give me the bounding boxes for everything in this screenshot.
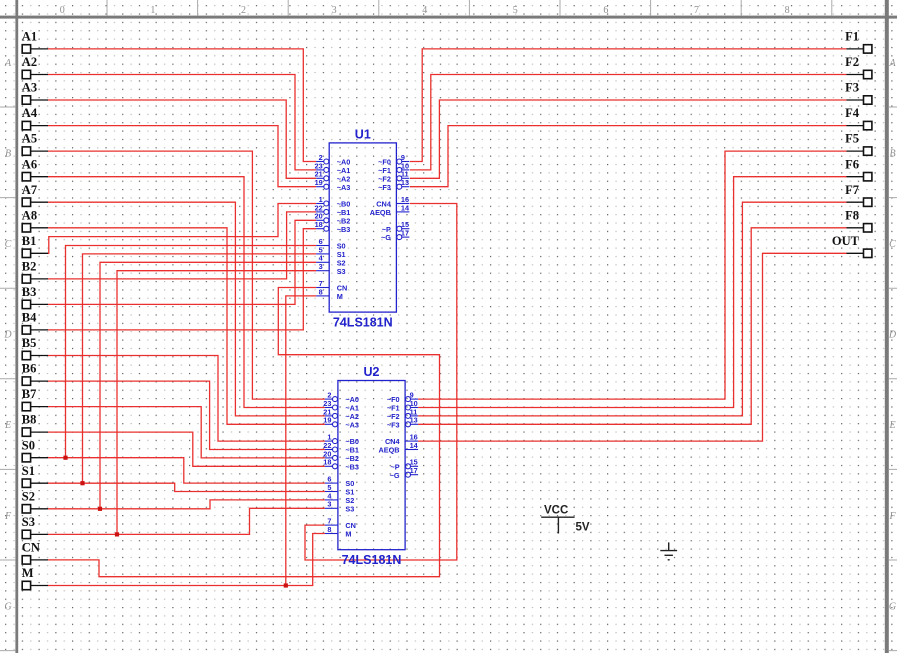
wire S3 net branch to U1 pin3: [48, 271, 317, 535]
input port B8: [22, 413, 48, 437]
svg-text:3: 3: [332, 5, 337, 16]
input port A5: [22, 132, 48, 156]
chip U2 pin 3 (S3) left: [325, 507, 338, 509]
svg-text:F8: F8: [845, 208, 859, 222]
svg-text:3: 3: [327, 500, 331, 509]
wire A8 net: port A8 to U2 pin19: [48, 228, 325, 424]
chip U2 pin 7 (CN) left: [325, 524, 338, 526]
svg-text:S2: S2: [22, 489, 35, 503]
svg-text:AEQB: AEQB: [379, 446, 400, 455]
chip U1 pin 10 (F1) right: [397, 167, 410, 172]
wire B3 net: port B3 to U1 pin20: [48, 220, 317, 304]
input port A6: [22, 157, 48, 181]
output port F2: [845, 55, 872, 79]
chip U1 pin 19 (A3) left: [316, 184, 329, 189]
svg-text:~B3: ~B3: [345, 462, 359, 471]
svg-text:D: D: [888, 330, 897, 341]
svg-text:8: 8: [319, 287, 323, 296]
svg-text:B2: B2: [22, 260, 37, 274]
svg-text:F4: F4: [845, 106, 860, 120]
chip U1 pin 5 (S1) left: [316, 253, 329, 255]
chip U1 pin 22 (B1) left: [316, 209, 329, 214]
svg-text:14: 14: [401, 203, 410, 212]
wire F8 net: U2 pin13 to port F8: [418, 228, 846, 424]
svg-text:S3: S3: [337, 267, 346, 276]
wire B7 net: port B7 to U2 pin20: [48, 407, 325, 458]
chip U1 pin 6 (S0) left: [316, 245, 329, 247]
svg-text:G: G: [889, 601, 896, 612]
svg-text:D: D: [3, 330, 12, 341]
svg-text:A8: A8: [22, 208, 37, 222]
chip U1 pin 20 (B2) left: [316, 218, 329, 223]
svg-text:U2: U2: [364, 365, 380, 379]
wire F6 net: U2 pin10 to port F6: [418, 177, 846, 408]
junction on S2 net: [98, 507, 102, 511]
svg-text:17: 17: [410, 466, 418, 475]
wire S2 net branch to U1 pin4: [48, 262, 317, 509]
wire B6 net: port B6 to U2 pin22: [48, 381, 325, 449]
svg-text:~A3: ~A3: [345, 420, 359, 429]
op-amp substitute: ALU chip U1 74LS181N body: [329, 143, 396, 312]
wire OUT net: U2 pin16 CN4 to port OUT: [418, 253, 846, 441]
svg-text:13: 13: [401, 178, 409, 187]
svg-text:F2: F2: [845, 55, 859, 69]
input port M: [22, 566, 48, 590]
chip U2 pin 23 (A1) left: [325, 405, 338, 410]
wire A3 net: port A3 to U1 pin21: [48, 100, 317, 178]
output port F4: [845, 106, 872, 130]
input port B2: [22, 260, 48, 284]
wire S0 net branch to U1 pin6: [48, 246, 317, 458]
wire B5 net: port B5 to U2 pin1: [48, 356, 325, 442]
svg-text:B6: B6: [22, 362, 37, 376]
svg-text:B: B: [5, 148, 11, 159]
chip U2 pin 6 (S0) left: [325, 482, 338, 484]
wire B1 net: port B1 to U1 pin1: [48, 204, 317, 254]
svg-text:B4: B4: [22, 311, 37, 325]
svg-text:A4: A4: [22, 106, 38, 120]
wire F5 net: U2 pin9 to port F5: [418, 151, 846, 399]
svg-text:F3: F3: [845, 81, 859, 95]
input port S0: [22, 438, 48, 462]
input port A3: [22, 81, 48, 105]
wire A4 net: port A4 to U1 pin19: [48, 126, 317, 187]
ground: [660, 542, 677, 559]
svg-text:B5: B5: [22, 336, 37, 350]
wire B8 net: port B8 to U2 pin18: [48, 432, 325, 466]
svg-text:~F3: ~F3: [387, 420, 400, 429]
wire F3 net: U1 pin11 to port F3: [410, 100, 847, 178]
chip U2 pin 19 (A3) left: [325, 422, 338, 427]
svg-text:A6: A6: [22, 157, 37, 171]
wire CN net: port CN to U1 pin7: [48, 288, 440, 577]
chip U1 pin 14 (AEQB) right: [396, 211, 409, 213]
wire S3 net branch to U2 pin3: [117, 508, 325, 534]
wire F1 net: U1 pin9 to port F1: [410, 49, 847, 162]
svg-text:A: A: [4, 58, 12, 69]
svg-text:0: 0: [60, 5, 65, 16]
wire A2 net: port A2 to U1 pin23: [48, 75, 317, 170]
input port A4: [22, 106, 48, 130]
svg-text:E: E: [4, 420, 11, 431]
svg-text:~F3: ~F3: [378, 183, 391, 192]
svg-text:F: F: [888, 511, 896, 522]
chip U1 pin 7 (CN) left: [316, 287, 329, 289]
svg-text:5V: 5V: [576, 522, 590, 534]
junction on S3 net: [115, 532, 119, 536]
input port B4: [22, 311, 48, 335]
svg-text:A: A: [888, 58, 896, 69]
output port F6: [845, 157, 872, 181]
chip U1 pin 18 (B3) left: [316, 226, 329, 231]
svg-text:B3: B3: [22, 285, 37, 299]
chip U1 pin 9 (F0) right: [397, 159, 410, 164]
svg-text:14: 14: [410, 441, 419, 450]
chip U1 pin 13 (F3) right: [397, 184, 410, 189]
chip U2 pin 20 (B2) left: [325, 455, 338, 460]
svg-text:S1: S1: [22, 464, 35, 478]
output port OUT: [832, 234, 872, 258]
chip U1 pin 23 (A1) left: [316, 167, 329, 172]
junction on S1 net: [80, 481, 84, 485]
chip U1 pin 15 (P) right: [397, 226, 410, 231]
chip U2 pin 13 (F3) right: [406, 422, 419, 427]
chip U2 pin 16 (CN4) right: [405, 440, 418, 442]
chip U2 pin 8 (M) left: [325, 533, 338, 535]
input port B5: [22, 336, 48, 360]
ruler column numbers: [60, 5, 790, 16]
svg-text:G: G: [4, 601, 11, 612]
chip U1 pin 4 (S2) left: [316, 261, 329, 263]
svg-text:19: 19: [315, 178, 323, 187]
svg-text:S3: S3: [22, 515, 35, 529]
wire A1 net: port A1 to U1 pin2: [48, 49, 317, 162]
ruler border top line: [0, 16, 897, 19]
svg-text:B: B: [889, 148, 895, 159]
wire F7 net: U2 pin11 to port F7: [418, 202, 846, 416]
svg-text:6: 6: [603, 5, 608, 16]
svg-text:A2: A2: [22, 55, 37, 69]
svg-text:VCC: VCC: [544, 505, 568, 517]
ruler row letters left: [3, 58, 12, 613]
wire M net branch to U2 pin8: [286, 534, 325, 586]
chip U2 pin 1 (B0) left: [325, 439, 338, 444]
input port S2: [22, 489, 48, 513]
chip U1 pin 16 (CN4) right: [396, 203, 409, 205]
input port S1: [22, 464, 48, 488]
wire S0 net branch to U2 pin6: [66, 458, 325, 483]
svg-text:A3: A3: [22, 81, 37, 95]
chip U2 pin 14 (AEQB) right: [405, 449, 418, 451]
svg-text:4: 4: [422, 5, 427, 16]
svg-text:B7: B7: [22, 387, 37, 401]
chip U2 pin 5 (S1) left: [325, 491, 338, 493]
chip U1 pin 21 (A2) left: [316, 176, 329, 181]
svg-text:3: 3: [319, 262, 323, 271]
chip U2 pin 15 (P) right: [406, 464, 419, 469]
svg-text:8: 8: [785, 5, 790, 16]
svg-text:7: 7: [694, 5, 699, 16]
svg-text:S0: S0: [22, 438, 35, 452]
svg-text:8: 8: [327, 525, 331, 534]
svg-text:B1: B1: [22, 234, 37, 248]
wire A5 net: port A5 to U2 pin2: [48, 151, 325, 399]
input port A8: [22, 208, 48, 232]
wire B4 net: port B4 to U1 pin18: [48, 229, 317, 330]
input port B3: [22, 285, 48, 309]
svg-text:F6: F6: [845, 157, 859, 171]
power supply VCC 5V: [541, 517, 574, 533]
chip U2 pin 11 (F2) right: [406, 413, 419, 418]
input port B6: [22, 362, 48, 386]
input port A2: [22, 55, 48, 79]
svg-text:M: M: [22, 566, 34, 580]
junction on M net: [284, 583, 288, 587]
svg-text:F1: F1: [845, 30, 859, 44]
svg-text:5: 5: [513, 5, 518, 16]
svg-text:M: M: [337, 292, 343, 301]
svg-text:C: C: [5, 239, 12, 250]
svg-text:13: 13: [410, 416, 418, 425]
chip U2 pin 21 (A2) left: [325, 413, 338, 418]
wire S1 net branch to U1 pin5: [48, 254, 317, 483]
wire S2 net branch to U2 pin4: [100, 500, 325, 509]
chip U2 pin 10 (F1) right: [406, 405, 419, 410]
output port F7: [845, 183, 872, 207]
svg-text:AEQB: AEQB: [370, 208, 391, 217]
svg-text:B8: B8: [22, 413, 37, 427]
input port S3: [22, 515, 48, 539]
svg-text:74LS181N: 74LS181N: [333, 316, 393, 330]
input port A1: [22, 30, 48, 54]
svg-text:A5: A5: [22, 132, 37, 146]
svg-text:OUT: OUT: [832, 234, 860, 248]
ruler border left line: [15, 0, 18, 653]
svg-text:U1: U1: [355, 127, 371, 141]
op-amp substitute: ALU chip U2 74LS181N body: [338, 381, 405, 550]
svg-text:F: F: [4, 511, 12, 522]
svg-text:M: M: [345, 530, 351, 539]
svg-text:18: 18: [323, 458, 331, 467]
junction on S0 net: [63, 456, 67, 460]
chip U2 pin 18 (B3) left: [325, 464, 338, 469]
wire A7 net: port A7 to U2 pin21: [48, 202, 325, 416]
svg-text:~G: ~G: [381, 233, 391, 242]
input port A7: [22, 183, 48, 207]
chip U1 pin 3 (S3) left: [316, 270, 329, 272]
output port F3: [845, 81, 872, 105]
svg-text:~B3: ~B3: [337, 225, 351, 234]
svg-text:2: 2: [241, 5, 246, 16]
output port F8: [845, 208, 872, 232]
ruler row letters right: [888, 58, 897, 613]
wire S1 net branch to U2 pin5: [83, 483, 325, 491]
svg-text:~G: ~G: [390, 471, 400, 480]
svg-text:CN: CN: [22, 541, 40, 555]
wire F4 net: U1 pin13 to port F4: [410, 126, 847, 187]
wire A6 net: port A6 to U2 pin23: [48, 177, 325, 408]
svg-text:17: 17: [401, 229, 409, 238]
svg-text:19: 19: [323, 416, 331, 425]
svg-text:A1: A1: [22, 30, 37, 44]
wire carry net: U1 pin16 CN4 to U2 pin7 CN: [305, 204, 457, 561]
svg-text:18: 18: [315, 220, 323, 229]
chip U2 pin 22 (B1) left: [325, 447, 338, 452]
svg-text:~A3: ~A3: [337, 183, 351, 192]
svg-text:E: E: [888, 420, 895, 431]
chip U1 pin 2 (A0) left: [316, 159, 329, 164]
chip U1 pin 11 (F2) right: [397, 176, 410, 181]
svg-text:C: C: [889, 239, 896, 250]
svg-text:S3: S3: [345, 504, 354, 513]
input port B7: [22, 387, 48, 411]
output port F5: [845, 132, 872, 156]
chip U2 pin 9 (F0) right: [406, 397, 419, 402]
chip U1 pin 1 (B0) left: [316, 201, 329, 206]
svg-text:1: 1: [150, 5, 155, 16]
input port B1: [22, 234, 48, 258]
chip U2 pin 17 (G) right: [406, 472, 419, 477]
svg-text:A7: A7: [22, 183, 37, 197]
svg-text:F5: F5: [845, 132, 859, 146]
svg-text:F7: F7: [845, 183, 859, 197]
svg-text:74LS181N: 74LS181N: [342, 553, 402, 567]
chip U2 pin 2 (A0) left: [325, 397, 338, 402]
output port F1: [845, 30, 872, 54]
ruler border right line: [885, 0, 889, 653]
wire M net branch to U1 pin8: [48, 296, 317, 586]
wire B2 net: port B2 to U1 pin22: [48, 212, 317, 279]
wire F2 net: U1 pin10 to port F2: [410, 75, 847, 170]
chip U1 pin 17 (G) right: [397, 235, 410, 240]
chip U1 pin 8 (M) left: [316, 295, 329, 297]
input port CN: [22, 541, 48, 565]
chip U2 pin 4 (S2) left: [325, 499, 338, 501]
